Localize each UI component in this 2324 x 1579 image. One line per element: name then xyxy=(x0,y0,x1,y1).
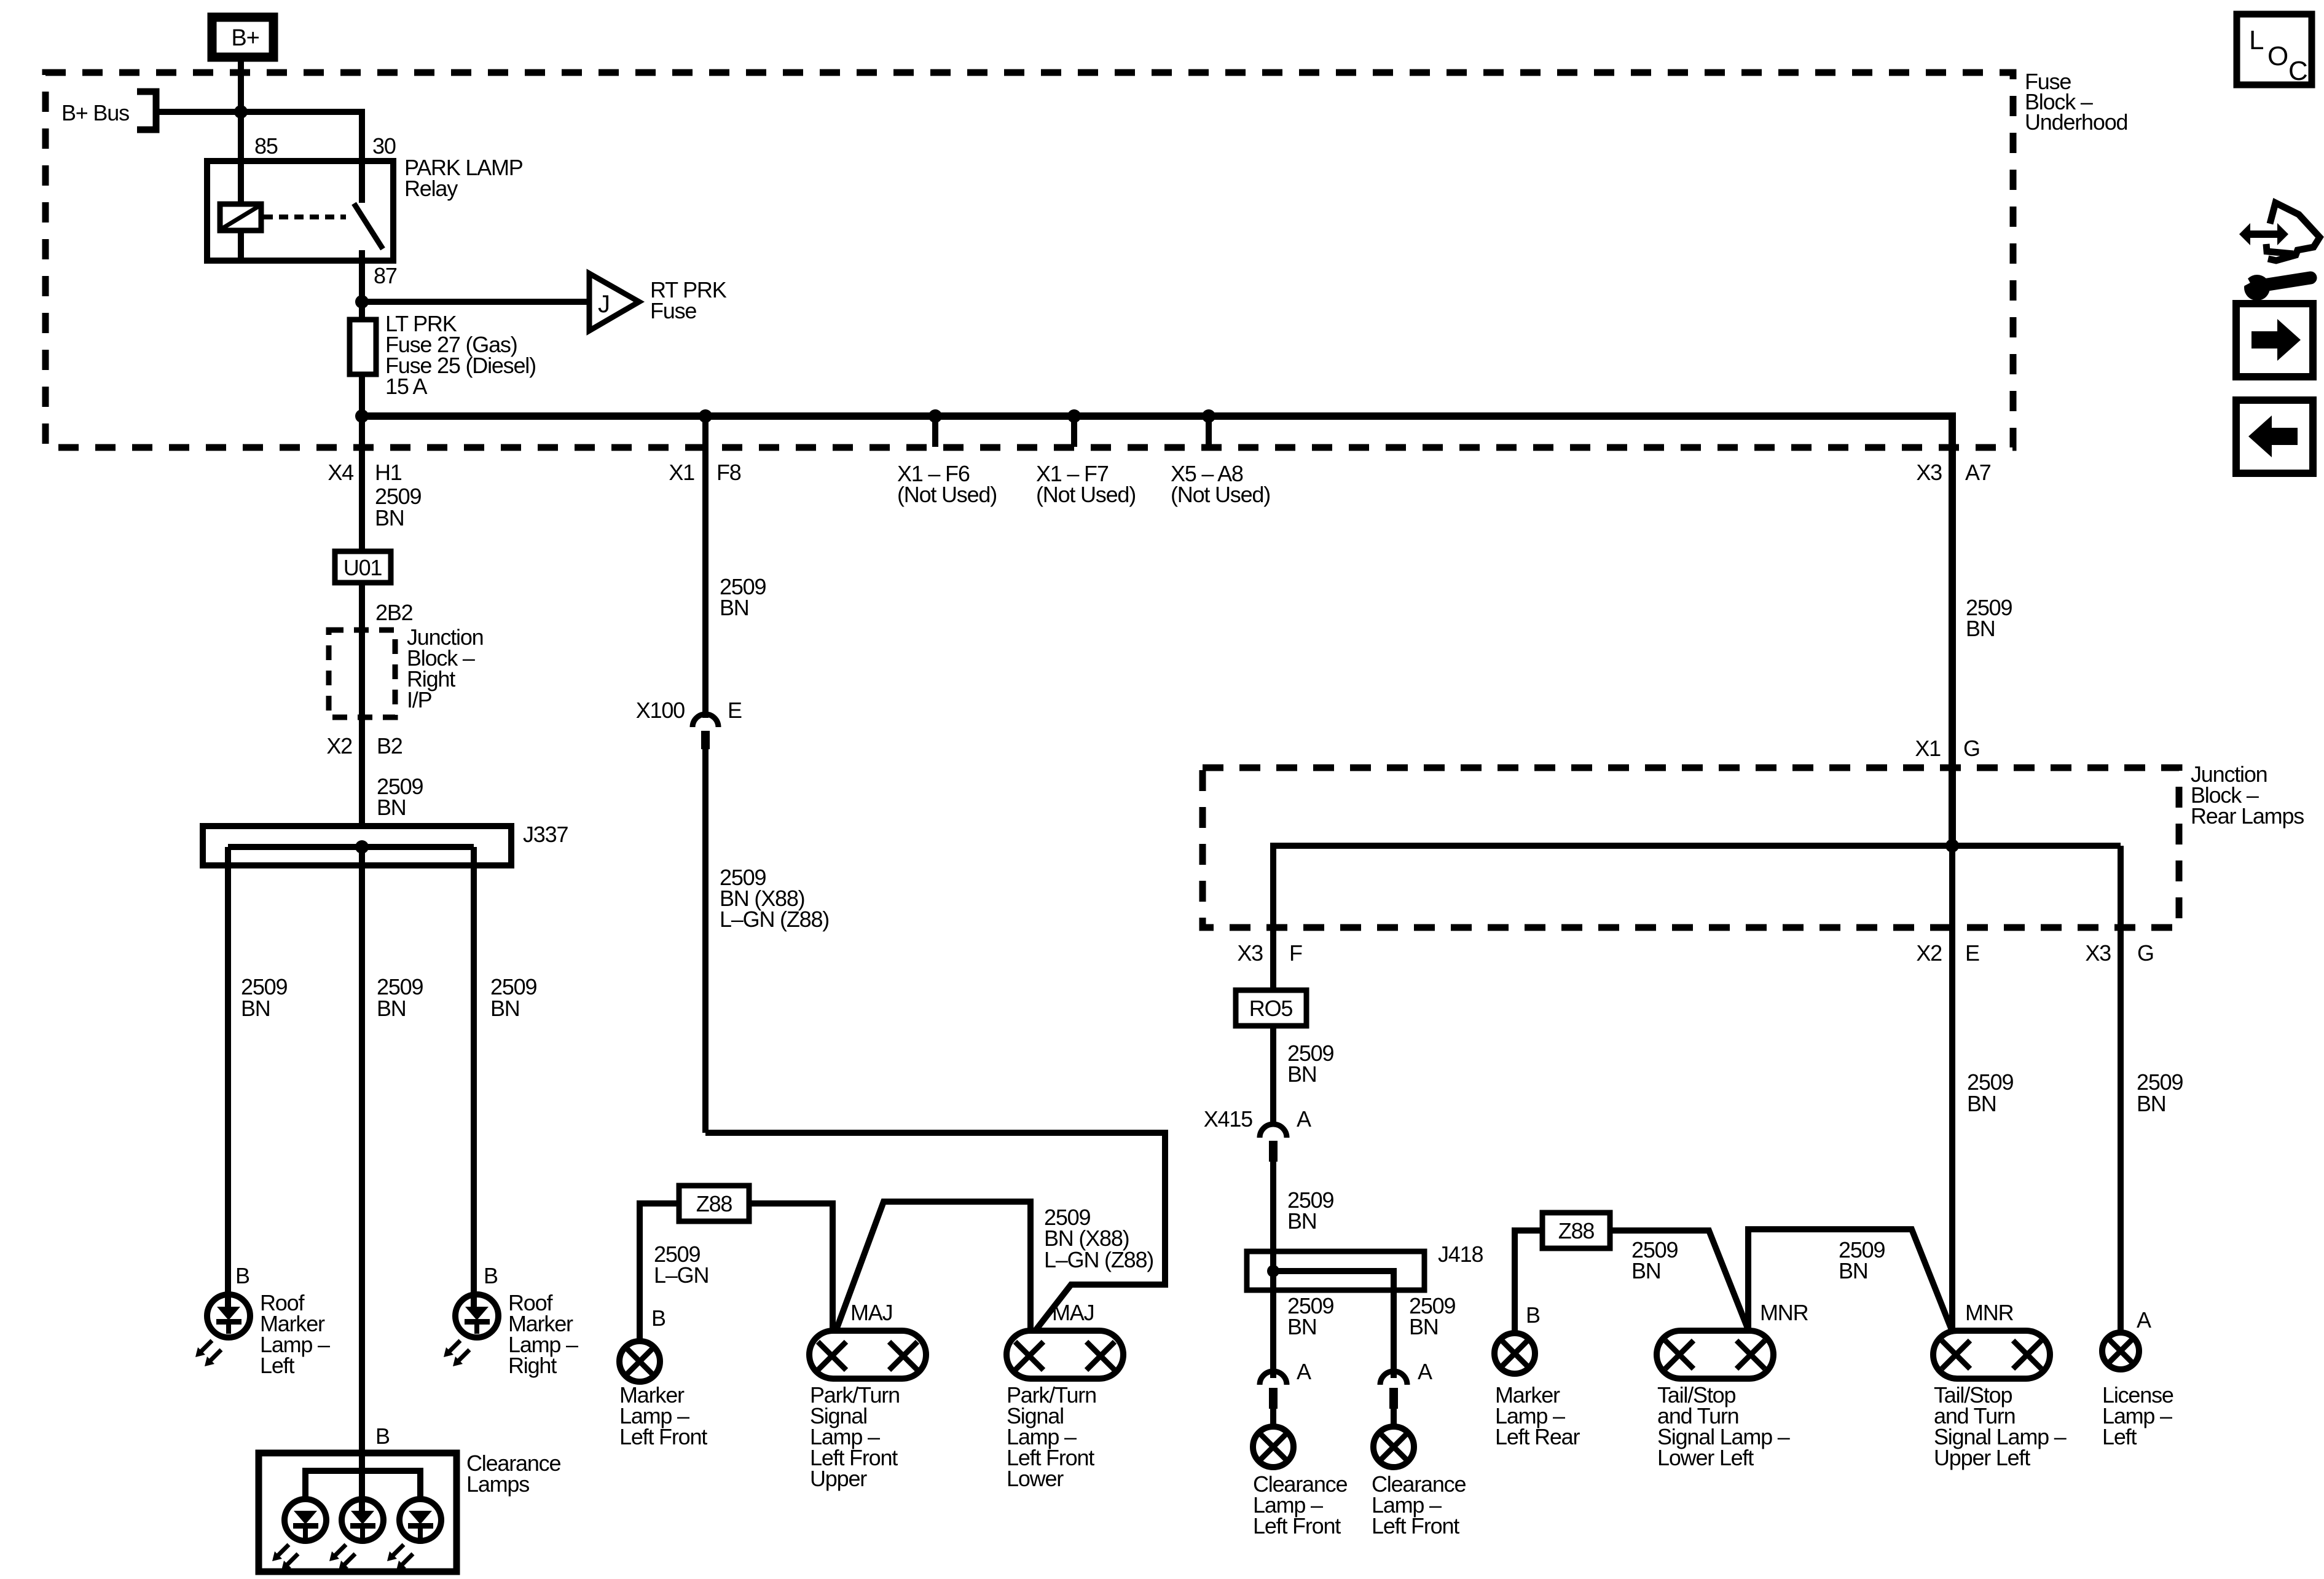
node J337 splice xyxy=(355,840,369,854)
clearance lamp LED 2 xyxy=(329,1453,383,1570)
svg-text:F8: F8 xyxy=(716,460,741,485)
svg-text:15 A: 15 A xyxy=(385,374,427,399)
svg-text:85: 85 xyxy=(254,133,278,159)
svg-text:Left Rear: Left Rear xyxy=(1495,1424,1580,1449)
svg-text:RO5: RO5 xyxy=(1249,996,1293,1021)
svg-text:H1: H1 xyxy=(375,460,402,485)
svg-text:X4: X4 xyxy=(328,460,353,485)
svg-text:X3: X3 xyxy=(2085,940,2111,966)
wire MNR link lamp3 to lamp4 xyxy=(1748,1229,1952,1331)
svg-text:L–GN: L–GN xyxy=(654,1262,709,1288)
wire clearance internal bus xyxy=(305,1471,420,1498)
svg-text:A: A xyxy=(1297,1359,1311,1384)
clearance lamp LED 1 xyxy=(272,1499,326,1570)
fuse block underhood dashed box xyxy=(45,69,2127,447)
svg-text:MNR: MNR xyxy=(1760,1300,1808,1325)
svg-text:A: A xyxy=(1418,1359,1432,1384)
svg-text:X2: X2 xyxy=(1916,940,1942,966)
svg-text:BN: BN xyxy=(490,996,520,1021)
svg-text:BN: BN xyxy=(1287,1061,1317,1087)
clearance lamp LED 3 xyxy=(387,1499,441,1570)
connector X100 pin E xyxy=(636,698,742,749)
svg-text:Z88: Z88 xyxy=(696,1191,732,1216)
splice J418 xyxy=(1247,1242,1483,1290)
svg-text:B+: B+ xyxy=(231,25,259,51)
node bus at A8 xyxy=(1202,409,1215,423)
svg-text:(Not Used): (Not Used) xyxy=(897,482,997,507)
marker lamp left front (bulb) xyxy=(619,1341,707,1449)
wire 87 to RT PRK fuse arrow xyxy=(362,299,587,305)
svg-text:BN: BN xyxy=(377,996,406,1021)
node bus at X4 xyxy=(355,409,369,423)
svg-text:O: O xyxy=(2267,41,2288,71)
pin label X3 A7 xyxy=(1916,460,1990,485)
svg-text:B2: B2 xyxy=(377,733,402,758)
svg-text:BN: BN xyxy=(2137,1091,2166,1116)
wire J337 internal bus xyxy=(228,844,474,850)
svg-text:Upper: Upper xyxy=(810,1466,867,1491)
wire marker lamp left front to Z88 xyxy=(640,1203,709,1342)
svg-text:J: J xyxy=(598,291,610,318)
wire stub X5-A8 xyxy=(1171,416,1270,507)
svg-text:Lower: Lower xyxy=(1007,1466,1064,1491)
svg-text:Left Front: Left Front xyxy=(1372,1513,1459,1538)
node bus at F6 xyxy=(928,409,942,423)
wire G 2509 BN label xyxy=(2137,1069,2183,1116)
wire J418 to clearance lamp 2 xyxy=(1394,1290,1455,1378)
svg-text:BN: BN xyxy=(1409,1314,1439,1339)
junction block right I/P dashed box xyxy=(329,624,484,717)
wire junction block internal bus xyxy=(1273,846,2121,990)
wire main bus xyxy=(362,416,1952,846)
wire J337 to roof marker lamp right xyxy=(474,847,536,1294)
pin label X3 G xyxy=(2085,940,2153,966)
node B+ junction xyxy=(234,105,248,119)
svg-text:X1: X1 xyxy=(669,460,694,485)
svg-text:J337: J337 xyxy=(523,822,568,847)
svg-text:Underhood: Underhood xyxy=(2025,109,2127,135)
marker lamp left rear (bulb) xyxy=(1494,1333,1580,1449)
tail/stop and turn signal lamp lower left xyxy=(1657,1300,1808,1470)
svg-text:Left: Left xyxy=(260,1353,294,1378)
svg-text:(Not Used): (Not Used) xyxy=(1036,482,1136,507)
LOC legend box xyxy=(2237,14,2312,86)
wire J418 internal xyxy=(1273,1271,1394,1290)
B+ bus tap xyxy=(61,92,156,130)
roof marker lamp left (LED) xyxy=(195,1263,330,1378)
svg-text:Right: Right xyxy=(508,1353,557,1378)
wire Z88 rear to tail lamp lower MNR xyxy=(1610,1231,1749,1331)
svg-text:F: F xyxy=(1289,940,1302,966)
svg-text:BN: BN xyxy=(1967,1091,1996,1116)
wire stub X1-F7 xyxy=(1036,416,1136,507)
svg-text:87: 87 xyxy=(374,263,397,288)
relay K PARK LAMP xyxy=(207,133,523,261)
svg-text:BN: BN xyxy=(1287,1208,1317,1234)
wire RO5 to X415 xyxy=(1273,1026,1333,1127)
pin label X2 B2 xyxy=(326,733,423,820)
connector pin A clearance 1 xyxy=(1260,1359,1311,1427)
pin label X2 E xyxy=(1916,940,1979,966)
svg-text:Left Front: Left Front xyxy=(619,1424,707,1449)
splice Z88 (rear) xyxy=(1542,1213,1610,1248)
svg-text:X3: X3 xyxy=(1916,460,1942,485)
wire MAJ link lamp1 to lamp2 xyxy=(836,1202,1030,1331)
svg-text:Rear Lamps: Rear Lamps xyxy=(2191,803,2304,829)
node bus at F8 xyxy=(699,409,712,423)
svg-text:Left Front: Left Front xyxy=(1253,1513,1341,1538)
node J418 splice xyxy=(1267,1265,1279,1277)
splice RO5 xyxy=(1236,990,1306,1026)
wire E down to tail lamp upper MNR xyxy=(1949,846,1955,1331)
vehicle service icon xyxy=(2233,203,2320,301)
svg-text:C: C xyxy=(2288,56,2308,86)
svg-text:U01: U01 xyxy=(343,555,382,580)
svg-text:X2: X2 xyxy=(326,733,352,758)
svg-text:E: E xyxy=(728,698,742,723)
relay coil xyxy=(220,161,261,261)
svg-text:30: 30 xyxy=(372,133,396,159)
wire J418 to clearance lamp 1 xyxy=(1273,1271,1333,1378)
roof marker lamp right (LED) xyxy=(444,1263,578,1378)
node junction block splice xyxy=(1945,839,1959,853)
node 87 branch xyxy=(355,295,369,309)
svg-text:A7: A7 xyxy=(1965,460,1991,485)
svg-text:MAJ: MAJ xyxy=(850,1300,892,1325)
fuse LT PRK xyxy=(350,311,536,399)
svg-text:BN: BN xyxy=(375,505,404,530)
node bus at F7 xyxy=(1067,409,1081,423)
wire B+ to relay pin 85 xyxy=(238,61,244,161)
relay contact link dashed xyxy=(264,215,346,219)
svg-text:B+ Bus: B+ Bus xyxy=(61,100,129,125)
junction block rear lamps dashed box xyxy=(1203,762,2304,927)
svg-text:Z88: Z88 xyxy=(1558,1218,1595,1243)
wire B+ bus to relay pin 30 xyxy=(158,112,362,161)
connector pin A clearance 2 xyxy=(1380,1359,1432,1427)
svg-text:I/P: I/P xyxy=(407,687,432,712)
wire X100 to park/turn lamp lower MAJ xyxy=(705,747,829,1133)
svg-text:BN: BN xyxy=(241,996,270,1021)
wire U01 to junction block 2B2 xyxy=(362,583,413,826)
svg-text:A: A xyxy=(1297,1106,1311,1132)
svg-text:BN: BN xyxy=(377,795,406,820)
park/turn signal lamp left front upper xyxy=(809,1300,926,1491)
wire X1 F8 down to X100 xyxy=(705,416,766,718)
svg-text:X3: X3 xyxy=(1237,940,1263,966)
wire J337 to clearance lamps xyxy=(362,847,423,1453)
pin label X4 H1 xyxy=(328,460,401,485)
svg-text:BN: BN xyxy=(1966,616,1995,641)
tail/stop and turn signal lamp upper left xyxy=(1933,1300,2067,1470)
pin label X1 F8 xyxy=(669,460,740,485)
B+ power symbol xyxy=(212,17,273,57)
svg-text:A: A xyxy=(2137,1307,2151,1333)
svg-text:BN: BN xyxy=(720,595,749,620)
clearance lamp left front 2 (bulb) xyxy=(1372,1427,1466,1538)
splice J337 xyxy=(203,822,568,865)
svg-text:L–GN (Z88): L–GN (Z88) xyxy=(1044,1247,1153,1272)
wire Z88 to park/turn lamp upper MAJ xyxy=(749,1203,833,1331)
svg-text:X100: X100 xyxy=(636,698,685,723)
off-page arrow J RT PRK Fuse xyxy=(589,274,727,331)
svg-text:B: B xyxy=(235,1263,249,1288)
svg-text:BN: BN xyxy=(1839,1258,1868,1283)
wire stub X1-F6 xyxy=(897,416,997,507)
svg-text:G: G xyxy=(1963,736,1980,761)
splice Z88 (left front) xyxy=(679,1186,749,1221)
wire relay pin 87 down xyxy=(362,261,397,320)
svg-text:2B2: 2B2 xyxy=(375,600,413,625)
svg-text:J418: J418 xyxy=(1438,1242,1483,1267)
park/turn signal lamp left front lower xyxy=(1007,1300,1123,1491)
connector X415 pin A xyxy=(1204,1106,1311,1162)
svg-text:BN: BN xyxy=(1631,1258,1661,1283)
wire X415 to J418 xyxy=(1273,1162,1333,1271)
svg-text:L: L xyxy=(2249,25,2264,55)
svg-text:Left: Left xyxy=(2102,1424,2137,1449)
clearance lamps assembly box xyxy=(259,1423,560,1572)
wire J337 to roof marker lamp left xyxy=(228,847,287,1294)
svg-text:BN: BN xyxy=(1287,1314,1317,1339)
wire A7 down to junction block rear lamps xyxy=(1966,595,2012,641)
svg-text:Upper Left: Upper Left xyxy=(1934,1445,2030,1470)
svg-text:MAJ: MAJ xyxy=(1052,1300,1094,1325)
svg-text:L–GN (Z88): L–GN (Z88) xyxy=(720,907,829,932)
clearance lamp left front 1 (bulb) xyxy=(1253,1427,1347,1538)
wire X4 H1 down to U01 xyxy=(362,416,421,551)
svg-text:B: B xyxy=(484,1263,498,1288)
pin label X3 F xyxy=(1237,940,1302,966)
svg-text:Fuse: Fuse xyxy=(650,298,696,323)
wire X88/Z88 route to lamp 2 xyxy=(705,1133,1165,1331)
wire marker lamp left rear to Z88 rear xyxy=(1515,1231,1542,1334)
svg-text:G: G xyxy=(2137,940,2154,966)
svg-text:E: E xyxy=(1965,940,1979,966)
svg-text:B: B xyxy=(651,1305,665,1331)
pin label X1 G xyxy=(1915,736,1979,761)
wire G down to license lamp xyxy=(2118,846,2124,1333)
svg-text:(Not Used): (Not Used) xyxy=(1171,482,1270,507)
legend left arrow box xyxy=(2236,400,2313,473)
svg-text:MNR: MNR xyxy=(1965,1300,2014,1325)
legend right arrow box xyxy=(2236,304,2313,377)
svg-text:B: B xyxy=(375,1423,390,1449)
connector U01 xyxy=(335,551,391,583)
svg-text:Relay: Relay xyxy=(404,176,458,201)
wire fuse output to bus xyxy=(359,374,365,416)
svg-text:X415: X415 xyxy=(1204,1106,1252,1132)
license lamp left (bulb) xyxy=(2102,1307,2173,1449)
svg-text:Lamps: Lamps xyxy=(466,1471,529,1497)
svg-text:B: B xyxy=(1526,1302,1540,1328)
relay switch blade xyxy=(354,161,383,261)
svg-text:X1: X1 xyxy=(1915,736,1941,761)
wire E 2509 BN label xyxy=(1967,1069,2013,1116)
svg-text:Lower Left: Lower Left xyxy=(1657,1445,1754,1470)
